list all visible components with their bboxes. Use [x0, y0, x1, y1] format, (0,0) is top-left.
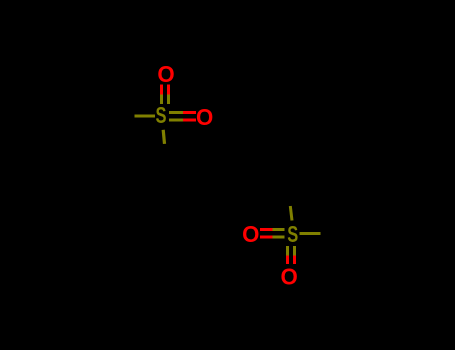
svg-text:O: O — [242, 221, 259, 247]
double bond S1=O1 (vertical, red halves near O) — [160, 85, 170, 95]
double bond S1=O2 (horizontal, olive halves near S) — [169, 111, 183, 122]
svg-text:S: S — [156, 102, 167, 128]
double bond S2=O4 (vertical, red halves near O) — [286, 256, 296, 264]
double bond S2=O3 (horizontal, olive halves near S) — [272, 228, 284, 239]
double bond S1=O2 (horizontal, red halves near O) — [183, 111, 196, 122]
bond S1-CH3 (left half-bond, olive) — [135, 115, 155, 118]
bond S2-CH3 (right half-bond, olive) — [300, 232, 321, 235]
double bond S1=O1 (vertical, olive halves near S) — [160, 95, 170, 105]
svg-text:O: O — [196, 104, 213, 130]
svg-text:S: S — [287, 221, 298, 247]
bond S2-C (up stub, olive half-bond) — [290, 206, 292, 221]
bond S1-C (down stub, olive half-bond) — [163, 130, 164, 144]
svg-text:O: O — [157, 61, 174, 87]
double bond S2=O3 (horizontal, red halves near O) — [260, 228, 272, 239]
svg-text:O: O — [280, 264, 297, 290]
double bond S2=O4 (vertical, olive halves near S) — [286, 246, 296, 256]
